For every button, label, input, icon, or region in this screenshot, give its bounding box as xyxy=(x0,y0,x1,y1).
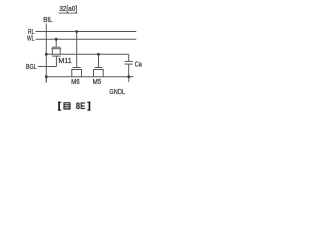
svg-text:GNDL: GNDL xyxy=(109,87,125,96)
svg-text:8E: 8E xyxy=(76,101,85,112)
svg-text:M5: M5 xyxy=(93,79,102,86)
svg-text:32[a0]: 32[a0] xyxy=(59,4,77,13)
svg-text:WL: WL xyxy=(27,36,34,43)
svg-text:BIL: BIL xyxy=(43,17,52,24)
svg-text:M11: M11 xyxy=(58,58,71,65)
svg-text:Ca: Ca xyxy=(135,62,142,69)
svg-text:M6: M6 xyxy=(71,79,80,86)
svg-text:BGL: BGL xyxy=(26,64,37,71)
